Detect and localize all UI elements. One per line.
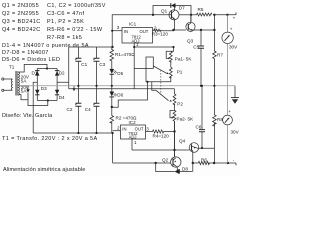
svg-text:Pa1- 5K: Pa1- 5K	[175, 57, 193, 62]
svg-text:3: 3	[146, 126, 149, 131]
wire Q1 right to riser	[179, 14, 191, 16]
svg-text:R5: R5	[198, 7, 204, 12]
svg-text:+: +	[230, 27, 233, 32]
diode D2	[55, 70, 65, 75]
svg-text:Q4 = BD242C: Q4 = BD242C	[2, 27, 41, 33]
trimmer P2	[156, 89, 183, 107]
wire Q3 emitter row	[194, 29, 215, 31]
0V rail tap arrow	[73, 86, 75, 89]
diode D1	[32, 70, 40, 75]
potentiometer Pa1	[166, 47, 192, 62]
wire center tap arrow	[18, 86, 28, 89]
svg-text:1: 1	[136, 42, 139, 47]
-V bottom rail	[33, 132, 113, 134]
wire IC2 adj down	[131, 139, 133, 150]
wire bottom secondary jog	[18, 95, 28, 100]
svg-text:OUT: OUT	[140, 29, 149, 34]
node 214.4,30	[213, 29, 215, 31]
wire IC1 input tap	[112, 30, 122, 32]
svg-text:C1: C1	[81, 62, 87, 67]
diode D8	[175, 166, 193, 174]
wire IC2 out	[146, 131, 153, 133]
svg-text:R7-R8 = 1k5: R7-R8 = 1k5	[47, 35, 82, 41]
diode D3	[35, 86, 47, 95]
resistor R4	[153, 130, 175, 139]
svg-text:C4: C4	[85, 107, 91, 112]
svg-text:Q1 = 2N3055: Q1 = 2N3055	[2, 3, 39, 9]
transistor Q1	[161, 6, 179, 31]
svg-text:30V: 30V	[229, 45, 238, 50]
node riser row82	[146, 81, 148, 83]
node IC1 in tap	[111, 30, 113, 32]
svg-text:2: 2	[117, 125, 120, 130]
svg-text:P2: P2	[177, 101, 183, 106]
capacitor C4	[85, 86, 100, 133]
wire riser to Q1 row	[112, 15, 153, 47]
capacitor C5	[193, 30, 204, 86]
svg-text:IN: IN	[124, 29, 128, 34]
node 173.5,47	[172, 46, 174, 48]
wire stub right of D6 node	[112, 82, 148, 107]
node R7 rail	[213, 85, 215, 87]
svg-text:P1: P1	[177, 70, 183, 75]
svg-text:+: +	[233, 16, 236, 21]
svg-text:IN: IN	[122, 126, 126, 131]
svg-text:R7: R7	[217, 53, 223, 58]
svg-text:D7: D7	[179, 6, 185, 11]
svg-text:3: 3	[117, 25, 120, 30]
svg-text:Q1: Q1	[161, 9, 168, 14]
diode D4	[55, 90, 65, 100]
wire plus feed row y88.7	[69, 88, 175, 90]
capacitor C6	[196, 86, 206, 148]
svg-text:Q2 = 2N2955: Q2 = 2N2955	[2, 11, 39, 17]
svg-text:Alimentación simétrica ajustab: Alimentación simétrica ajustable	[3, 167, 85, 173]
svg-text:R1=470Ω: R1=470Ω	[115, 52, 135, 57]
node C4 bottom	[95, 132, 97, 134]
wire riser to D7 row	[153, 6, 171, 15]
svg-text:Diseño: Vte. García: Diseño: Vte. García	[2, 113, 53, 119]
svg-text:IC2: IC2	[129, 120, 137, 125]
resistor R1	[110, 47, 135, 69]
wire center tap down to bridge bottom	[28, 93, 48, 106]
svg-text:R5-R6 = 0'22 - 15W: R5-R6 = 0'22 - 15W	[47, 27, 103, 33]
IC2 regulator box	[117, 120, 149, 145]
-V feed vertical	[112, 133, 114, 163]
node R4 row	[173, 130, 175, 132]
svg-text:D6: D6	[117, 93, 123, 98]
diode D7	[171, 3, 185, 11]
svg-text:D2: D2	[59, 70, 65, 75]
node meter1 top	[226, 14, 228, 16]
LED D5	[110, 69, 124, 86]
svg-text:+: +	[228, 109, 231, 114]
node Q4 collector base row	[192, 162, 194, 164]
transformer T1	[2, 64, 20, 95]
svg-text:Q3 = BD241C: Q3 = BD241C	[2, 19, 41, 25]
capacitor C3	[93, 47, 105, 86]
node C2 bottom	[77, 132, 79, 134]
node C3 top rail	[95, 85, 97, 87]
node C1 top rail	[77, 85, 79, 87]
svg-text:C3: C3	[99, 62, 105, 67]
wire IC1 out	[153, 30, 154, 32]
resistor R3	[152, 29, 174, 36]
svg-text:D5: D5	[117, 71, 123, 76]
node adj y47	[133, 46, 135, 48]
svg-text:5A: 5A	[21, 78, 28, 83]
wire R5 to plus terminal	[213, 12, 236, 14]
resistor R2	[110, 107, 137, 133]
svg-text:C2: C2	[67, 107, 73, 112]
svg-text:IC1: IC1	[129, 22, 137, 27]
wire adj2 row	[132, 149, 189, 151]
node bridge top	[46, 67, 48, 69]
transistor Q4	[179, 139, 214, 172]
wire R5 row start	[191, 14, 197, 16]
svg-text:-: -	[233, 158, 235, 163]
transformer secondary labels	[21, 75, 30, 94]
bridge rectifier frame	[37, 69, 57, 101]
svg-text:T1 = Transfo. 220V : 2 x 20V: T1 = Transfo. 220V : 2 x 20V a 5A	[2, 136, 98, 142]
potentiometer Pa2	[170, 104, 194, 122]
capacitor C1	[75, 47, 87, 86]
wire R6 to minus terminal	[208, 163, 236, 165]
LED D6	[110, 86, 124, 107]
svg-text:P1, P2 = 25K: P1, P2 = 25K	[47, 19, 84, 25]
svg-text:C1, C2 = 1000uf/35V: C1, C2 = 1000uf/35V	[47, 3, 106, 9]
resistor R7	[213, 15, 224, 86]
node R3 right	[172, 29, 174, 31]
node meter2 bottom	[227, 162, 229, 164]
wire P1 bottom row	[134, 57, 171, 82]
svg-text:30V: 30V	[231, 129, 240, 134]
node D5 rail	[111, 85, 113, 87]
0V gray rail	[18, 85, 235, 87]
svg-text:R4=120: R4=120	[153, 134, 170, 139]
wire D7 to corner	[176, 6, 192, 23]
node D8 riser	[155, 162, 157, 164]
wire AC1 top secondary to bridge	[18, 64, 47, 72]
wire Q1 base row	[153, 14, 171, 16]
capacitor C2	[67, 86, 82, 133]
parts list text block	[2, 3, 106, 63]
node 191,15.5	[190, 14, 192, 16]
voltmeter M2	[223, 86, 240, 163]
wire v 151.8	[152, 82, 156, 91]
svg-text:D1-4 = 1N4007 o puente de 5A: D1-4 = 1N4007 o puente de 5A	[2, 43, 89, 49]
node C6 bottom	[201, 147, 203, 149]
svg-text:Pa2- 5K: Pa2- 5K	[177, 117, 195, 122]
node R7 top	[213, 14, 215, 16]
svg-text:Q4: Q4	[179, 139, 186, 144]
svg-text:1: 1	[134, 140, 137, 145]
node on +V rail	[111, 46, 113, 48]
node D6 bottom	[111, 106, 113, 108]
svg-text:D7-D8 = 1N4007: D7-D8 = 1N4007	[2, 50, 49, 56]
trimmer P1	[153, 61, 182, 78]
wire IC1 adj down	[133, 43, 135, 89]
svg-text:C6: C6	[196, 125, 202, 130]
-V right row	[193, 162, 199, 164]
svg-text:R6: R6	[201, 158, 207, 163]
resistor R8	[213, 86, 224, 163]
svg-text:D4: D4	[59, 95, 65, 100]
node C5 top	[200, 29, 202, 31]
wire Pa2 down to Q2	[174, 122, 176, 158]
wire adj line y47	[134, 46, 173, 48]
svg-text:R3=120: R3=120	[152, 31, 169, 36]
svg-text:C3-C6 = 47nf: C3-C6 = 47nf	[47, 11, 85, 17]
wire bridge plus output right riser	[57, 47, 69, 89]
ground symbol	[231, 86, 239, 104]
-V base row	[113, 162, 171, 164]
wire riser to D8 row	[156, 163, 175, 172]
svg-text:Q2: Q2	[162, 157, 169, 162]
IC1 regulator box	[122, 22, 157, 47]
svg-text:Q3: Q3	[187, 39, 194, 44]
transistor Q2	[162, 122, 181, 172]
svg-text:D1: D1	[32, 70, 38, 75]
node adj2 row	[173, 149, 175, 151]
resistor R5	[197, 7, 212, 16]
voltmeter M1	[222, 15, 238, 86]
node R8 bottom	[213, 162, 215, 164]
wire R3 to Q3 base	[174, 29, 187, 31]
svg-text:D5-D6 = Diodos LED: D5-D6 = Diodos LED	[2, 57, 60, 63]
svg-text:D3: D3	[41, 86, 47, 91]
node R2 rail	[112, 132, 114, 134]
bottom notes text	[2, 113, 98, 173]
+V top rail	[69, 46, 113, 48]
svg-text:C5: C5	[193, 44, 199, 49]
wire IC2 in	[113, 130, 121, 132]
svg-text:T1: T1	[9, 64, 15, 69]
node base/D7 riser	[152, 14, 154, 16]
node bridge bottom	[47, 99, 49, 101]
resistor R6	[198, 158, 209, 165]
wire bridge minus output left	[33, 82, 37, 133]
svg-text:D8: D8	[182, 166, 188, 171]
dashed gang link	[160, 70, 162, 95]
transistor Q3	[186, 15, 195, 44]
node C6 rail	[201, 85, 203, 87]
node C5 rail	[200, 85, 202, 87]
